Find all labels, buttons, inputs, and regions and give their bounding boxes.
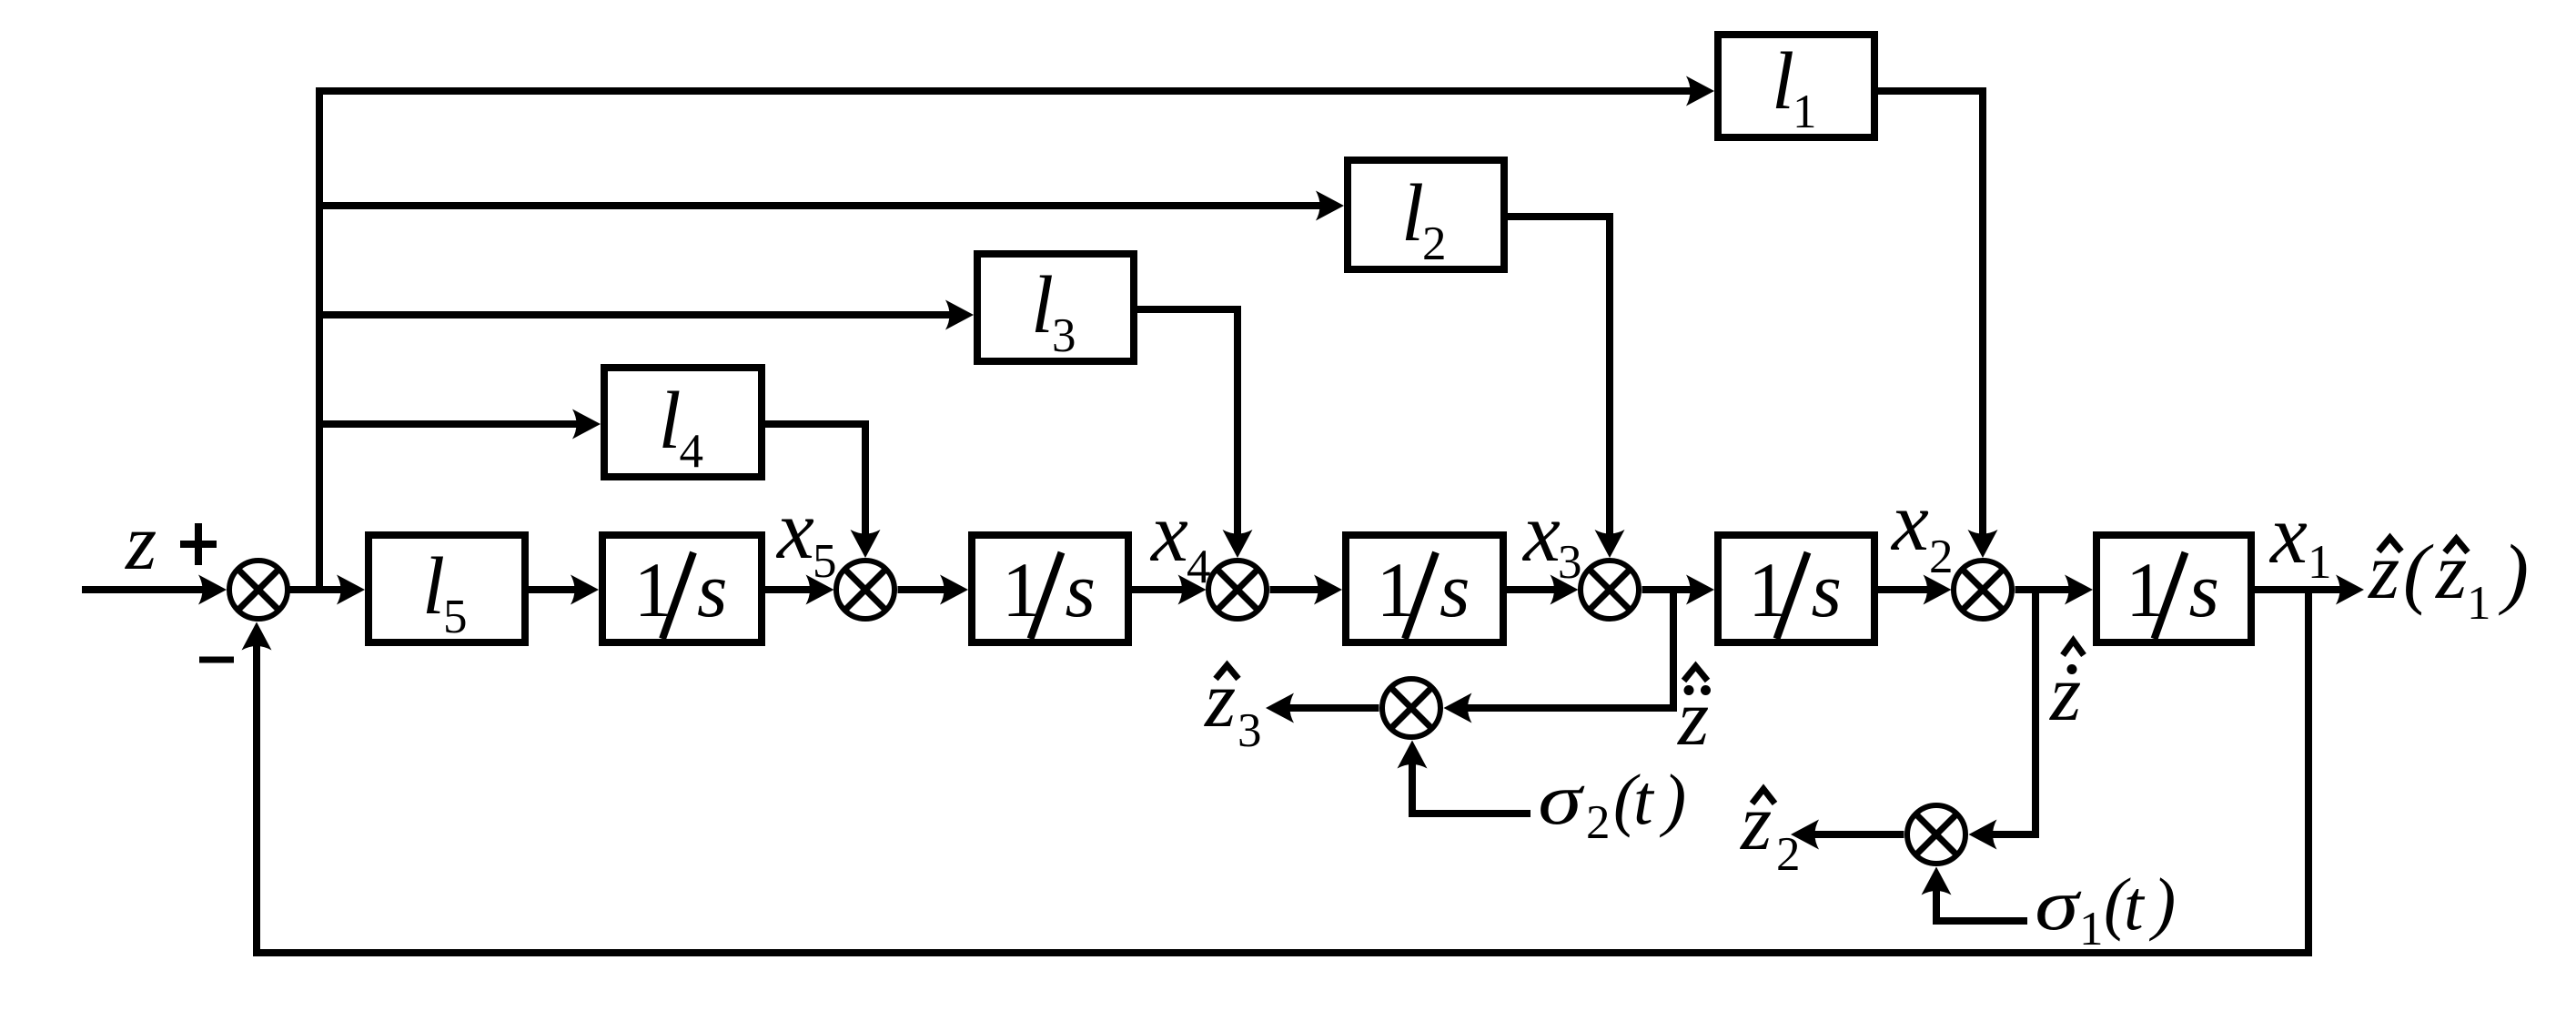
wire block l1 output down to multiplier M2 [1874,91,1998,558]
svg-text:): ) [1660,760,1687,838]
wire multiplier M3 to fourth integrator with junction [1642,575,1715,605]
wire input z into summing junction [82,575,227,605]
wire third integrator to multiplier M3 [1507,575,1579,605]
svg-text:1: 1 [2079,903,2104,955]
node z-hat-2 label [1740,779,1801,881]
svg-text:5: 5 [443,591,468,643]
svg-text:x: x [775,483,814,576]
wire multiplier M4 to third integrator [1270,575,1343,605]
svg-text:z: z [1740,779,1772,867]
wire multiplier M7 output to z-hat-2 [1791,820,1904,850]
block l5 [369,535,525,643]
label 1/s of second integrator [1002,546,1096,639]
wire block l4 output down to multiplier M5 [762,424,881,558]
svg-text:): ) [2149,864,2177,942]
summing junction S1 (circle with X) [229,561,288,619]
svg-text:1: 1 [1793,86,1817,138]
node x1 label [2268,488,2332,589]
svg-text:(: ( [2403,528,2434,616]
svg-text:l: l [1401,168,1424,258]
wire branch to block l1 [316,76,1714,106]
svg-text:z: z [2368,528,2399,616]
svg-text:4: 4 [680,425,704,478]
plus sign at summing junction [180,523,217,565]
svg-text:z: z [1677,674,1709,763]
svg-text:σ: σ [1538,759,1584,840]
block l4 [604,368,762,478]
node output label z-hat (z-hat-1) [2368,528,2529,630]
wire multiplier M2 to fifth integrator with junction [2015,575,2094,605]
svg-text:): ) [2498,528,2529,616]
svg-text:3: 3 [1558,536,1582,589]
node z-double-dot-hat label [1677,666,1711,763]
wire block l2 output down to multiplier M3 [1504,217,1625,558]
multiplier M7 (circle with X) [1907,805,1965,864]
svg-text:s: s [1440,546,1470,633]
wire first integrator to multiplier M5 [765,575,834,605]
wire sigma2 feed into multiplier M6 [1398,741,1531,814]
block l3 [977,254,1134,362]
wire branch to block l3 [319,300,974,330]
node x2 label [1890,475,1954,583]
label 1/s of fourth integrator [1748,546,1842,639]
svg-text:x: x [1890,475,1929,568]
svg-text:z: z [2049,650,2081,738]
node sigma1(t) label [2035,864,2176,955]
wire branch to block l2 [319,191,1344,221]
multiplier M6 (circle with X) [1382,679,1440,737]
svg-text:z: z [1204,656,1236,744]
wire summing junction to block l5 [288,575,366,605]
node sigma2(t) label [1538,759,1686,849]
wire multiplier M5 to second integrator [898,575,969,605]
svg-text:x: x [1149,486,1188,579]
minus sign at summing junction [199,657,234,663]
wire feedback from output junction to summing junction [242,590,2309,953]
wire second integrator to multiplier M4 [1132,575,1207,605]
node x4 label [1149,486,1211,593]
svg-text:s: s [1066,546,1096,633]
svg-text:t: t [1633,760,1655,839]
block l2 [1348,160,1504,270]
multiplier M5 (circle with X) [836,561,894,619]
node z-dot-hat label [2049,641,2084,738]
wire fourth integrator to multiplier M2 [1878,575,1952,605]
svg-text:3: 3 [1052,309,1076,362]
svg-text:s: s [697,546,727,633]
label 1/s of first integrator [634,546,728,639]
block integrator 1/s (third) [1346,535,1503,642]
svg-text:x: x [1521,486,1561,579]
wire junction after M2 down to multiplier M7 [1969,590,2036,850]
wire block l3 output down to multiplier M4 [1134,309,1253,558]
wire multiplier M6 output to z-hat-3 [1266,693,1379,723]
svg-text:2: 2 [1586,796,1611,849]
svg-text:5: 5 [813,535,837,588]
wire vertical branch feeder [316,87,323,590]
block integrator 1/s (second) [972,535,1128,642]
svg-text:3: 3 [1237,704,1262,757]
multiplier M4 (circle with X) [1208,561,1267,619]
svg-text:l: l [659,376,682,466]
svg-text:σ: σ [2035,864,2081,945]
svg-text:1: 1 [2308,536,2332,589]
wire sigma1 feed into multiplier M7 [1922,867,2028,922]
svg-text:2: 2 [1776,828,1801,881]
wire branch to block l4 [319,409,601,440]
svg-text:2: 2 [1929,531,1954,583]
node z input label [125,499,157,587]
svg-text:l: l [1772,36,1794,126]
svg-text:2: 2 [1422,217,1447,270]
block integrator 1/s (fourth) [1718,535,1874,642]
svg-text:l: l [1031,260,1054,350]
svg-text:l: l [422,541,445,632]
multiplier M3 (circle with X) [1581,561,1639,619]
node z-hat-3 label [1204,656,1262,757]
label 1/s of third integrator [1377,546,1470,639]
svg-text:t: t [2124,865,2146,945]
multiplier M2 (circle with X) [1954,561,2012,619]
svg-text:1: 1 [2467,577,2491,630]
label 1/s of fifth integrator [2126,546,2219,639]
svg-text:s: s [1812,546,1842,633]
wire block l5 to first integrator [529,575,599,605]
svg-text:z: z [125,499,157,587]
wire junction after M3 down to multiplier M6 [1444,590,1674,723]
node x5 label [775,483,837,588]
block integrator 1/s (first) [602,535,762,642]
node x3 label [1521,486,1582,589]
svg-text:z: z [2435,528,2467,616]
wire fifth integrator to output [2255,575,2364,605]
block l1 [1718,35,1874,138]
block integrator 1/s (fifth) [2096,535,2251,642]
svg-text:x: x [2268,488,2308,581]
svg-text:s: s [2189,546,2219,633]
